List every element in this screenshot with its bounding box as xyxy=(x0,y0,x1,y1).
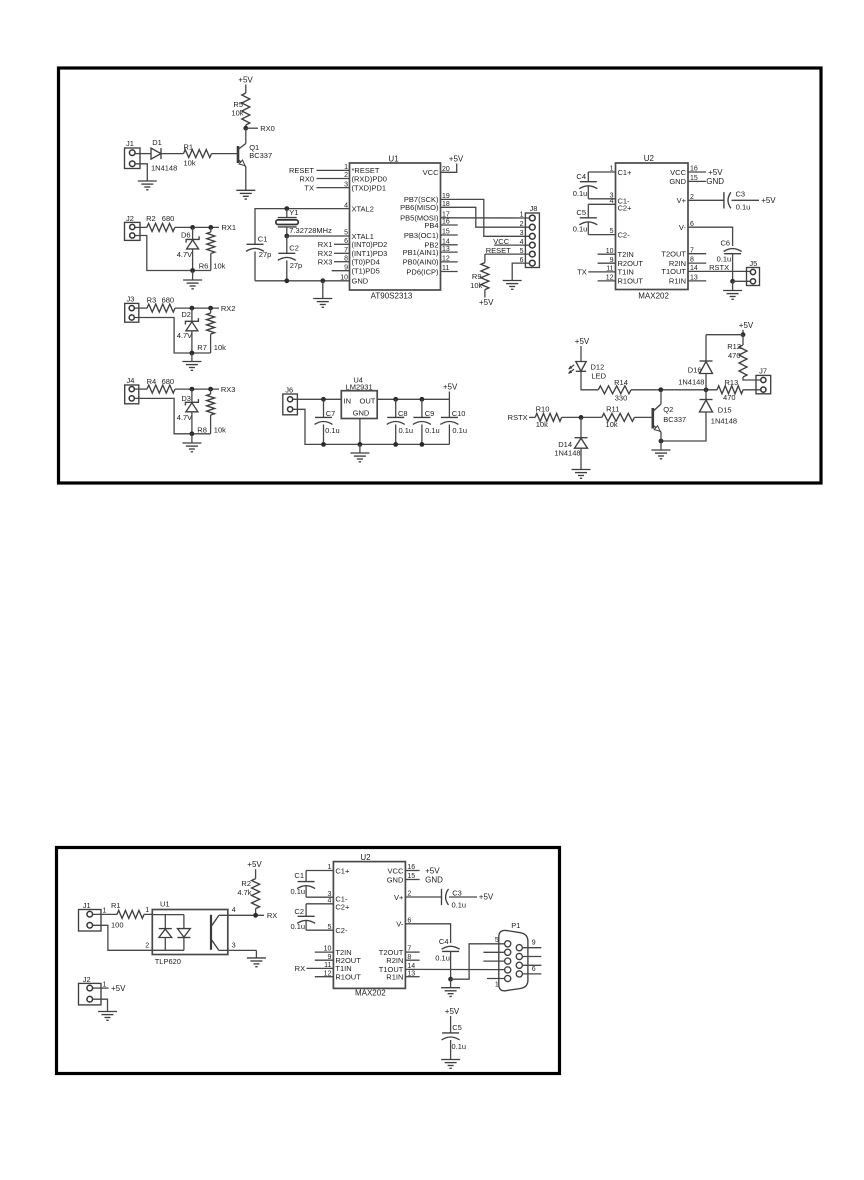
svg-text:10k: 10k xyxy=(184,159,196,168)
+5V supply at C3 (figure 2) xyxy=(479,893,494,902)
svg-text:GND: GND xyxy=(669,177,686,186)
node C4 ground junction xyxy=(448,977,453,982)
svg-text:3: 3 xyxy=(520,230,524,237)
svg-text:TX: TX xyxy=(304,183,314,192)
node R7 top xyxy=(208,306,213,311)
net label TX with wire to U1 pin3 xyxy=(304,183,349,192)
svg-text:RX0: RX0 xyxy=(260,124,275,133)
node D2 bottom xyxy=(190,351,195,356)
wire node to D3 xyxy=(191,389,193,402)
zener diode D2 4.7V xyxy=(177,310,199,340)
capacitor C1 0.1u (figure 2) xyxy=(291,871,334,898)
svg-text:0.1u: 0.1u xyxy=(291,922,306,931)
wire R14 to R13 xyxy=(631,389,717,391)
svg-text:(TXD)PD1: (TXD)PD1 xyxy=(352,183,387,192)
svg-text:1: 1 xyxy=(344,164,348,171)
wire stub P1 pin6 xyxy=(522,973,541,975)
svg-text:4: 4 xyxy=(232,907,236,914)
svg-text:PB3(OC1): PB3(OC1) xyxy=(404,231,439,240)
net label RX3 with wire to U1 pin8 xyxy=(318,257,350,266)
capacitor C3 0.1u xyxy=(724,190,759,212)
capacitor C2 0.1u (figure 2) xyxy=(291,904,334,931)
net label RX xyxy=(267,911,277,920)
node C8 bottom xyxy=(393,442,398,447)
svg-text:D14: D14 xyxy=(558,440,572,449)
svg-text:1N4148: 1N4148 xyxy=(554,449,580,458)
svg-text:V+: V+ xyxy=(394,893,404,902)
svg-text:U1: U1 xyxy=(388,154,399,163)
svg-text:XTAL2: XTAL2 xyxy=(352,204,374,213)
wire node to D16 xyxy=(706,335,743,361)
svg-text:RX1: RX1 xyxy=(318,240,333,249)
svg-text:C1+: C1+ xyxy=(618,168,633,177)
wire stub PB2 xyxy=(441,244,458,246)
wire +5V to R5 xyxy=(245,85,247,94)
wire R1 to Q1 base xyxy=(212,153,239,155)
connector J6 xyxy=(283,386,298,415)
node C2 bottom xyxy=(284,278,289,283)
svg-text:680: 680 xyxy=(162,377,175,386)
svg-text:IN: IN xyxy=(344,397,352,406)
svg-text:J2: J2 xyxy=(83,975,91,984)
svg-text:(INT0)PD2: (INT0)PD2 xyxy=(352,240,388,249)
svg-text:7: 7 xyxy=(344,247,348,254)
wire J8 pin6 to ground xyxy=(512,263,529,280)
node RX junction xyxy=(253,913,258,918)
node C6 bottom xyxy=(730,279,735,284)
node XTAL1 junction xyxy=(284,234,289,239)
svg-text:0.1u: 0.1u xyxy=(325,426,340,435)
svg-text:C7: C7 xyxy=(326,409,336,418)
svg-text:+5V: +5V xyxy=(479,893,494,902)
svg-text:V-: V- xyxy=(396,920,404,929)
svg-text:R1OUT: R1OUT xyxy=(618,277,644,286)
wire stub U2 pin8 (figure 2) xyxy=(405,959,419,961)
svg-text:RX3: RX3 xyxy=(318,257,333,266)
wire U1 pin4 to RX node xyxy=(219,907,264,915)
svg-text:R8: R8 xyxy=(197,425,207,434)
wire R5 to RX0 node xyxy=(245,125,247,128)
svg-text:R3: R3 xyxy=(147,295,157,304)
svg-text:C2-: C2- xyxy=(618,230,631,239)
svg-text:J6: J6 xyxy=(285,386,293,395)
capacitor C3 0.1u (figure 2) xyxy=(442,888,478,909)
wire J4 pin1 to R4 xyxy=(135,388,147,390)
node R8 top xyxy=(208,387,213,392)
svg-text:R1: R1 xyxy=(111,901,121,910)
+5V supply at C3 xyxy=(761,196,776,205)
svg-text:RX: RX xyxy=(295,964,305,973)
svg-text:9: 9 xyxy=(344,264,348,271)
connector P1 DB9 xyxy=(495,921,536,991)
svg-text:680: 680 xyxy=(162,214,175,223)
capacitor C8 0.1u xyxy=(387,399,413,444)
wire D6 to bottom rail xyxy=(192,249,194,271)
ground at J2 xyxy=(98,1012,117,1021)
svg-text:1: 1 xyxy=(495,981,499,988)
node D3 top xyxy=(190,387,195,392)
wire J3 pin1 to R3 xyxy=(135,307,147,309)
svg-text:1: 1 xyxy=(103,981,107,988)
wire J1 pin2 to U1 pin2 xyxy=(93,925,153,950)
wire stub U2 pin9 (figure 2) xyxy=(315,959,334,961)
svg-text:RX1: RX1 xyxy=(222,223,237,232)
svg-text:C8: C8 xyxy=(398,409,408,418)
net label RSTX with wire to J5 pin1 xyxy=(688,263,750,272)
connector J8 xyxy=(520,204,540,268)
wire stub P1 pin1 xyxy=(487,978,505,980)
net label RESET with wire to U1 pin1 xyxy=(289,166,350,175)
svg-text:RX3: RX3 xyxy=(221,385,236,394)
svg-text:+5V: +5V xyxy=(575,337,590,346)
svg-text:4.7V: 4.7V xyxy=(177,331,192,340)
wire J2 pin1 to R2 xyxy=(135,226,147,228)
connector J1 xyxy=(125,139,141,168)
svg-text:R4: R4 xyxy=(147,377,157,386)
svg-text:4.7V: 4.7V xyxy=(177,413,192,422)
svg-text:0.1u: 0.1u xyxy=(573,225,588,234)
wire U4 OUT to +5V rail xyxy=(377,398,449,400)
+5V supply at R2 xyxy=(247,860,262,869)
node RX0 junction xyxy=(243,126,248,131)
wire U2 GND stub xyxy=(688,180,706,182)
ground at Q2 xyxy=(652,450,671,459)
+5V supply at R9 xyxy=(479,298,494,307)
svg-text:VCC: VCC xyxy=(388,866,404,875)
svg-text:+5V: +5V xyxy=(479,298,494,307)
svg-text:R1: R1 xyxy=(184,142,194,151)
resistor R8 10k xyxy=(197,389,226,434)
wire node to Q1 collector xyxy=(245,128,247,143)
svg-text:27p: 27p xyxy=(290,261,303,270)
svg-text:10k: 10k xyxy=(536,420,548,429)
wire U1 pin3 to ground xyxy=(219,943,257,958)
wire +5V to R12 node xyxy=(742,330,744,335)
svg-text:C5: C5 xyxy=(576,208,586,217)
svg-text:0.1u: 0.1u xyxy=(452,426,467,435)
node D14 top xyxy=(579,415,584,420)
wire D2 to bottom rail xyxy=(191,331,193,353)
svg-text:2: 2 xyxy=(344,172,348,179)
node D2 top xyxy=(190,306,195,311)
wire stub PB0 xyxy=(441,261,458,263)
svg-text:0.1u: 0.1u xyxy=(452,901,467,910)
svg-text:U2: U2 xyxy=(360,853,371,862)
wire Q1 emitter to ground xyxy=(245,167,247,191)
wire node to D6 xyxy=(192,227,194,239)
svg-text:1: 1 xyxy=(145,907,149,914)
wire stub PB4 xyxy=(441,224,458,226)
wire R2 to RX1 label xyxy=(175,226,219,228)
wire PB7 to J8 pin3 xyxy=(441,199,530,236)
wire stub U2 pin9 xyxy=(598,262,616,264)
wire J2 pin2 to ground xyxy=(93,999,108,1011)
LED D12 xyxy=(568,362,606,381)
wire T1OUT to P1 xyxy=(405,968,504,970)
optocoupler U1 TLP620 xyxy=(152,900,228,967)
svg-text:C2-: C2- xyxy=(335,926,348,935)
wire U2 V+ to C3 xyxy=(688,199,724,201)
svg-text:RSTX: RSTX xyxy=(508,413,528,422)
resistor R2 4.7k xyxy=(237,869,259,915)
svg-text:J3: J3 xyxy=(127,295,135,304)
svg-text:0.1u: 0.1u xyxy=(736,202,751,211)
node Q2 collector xyxy=(658,387,663,392)
svg-text:T2OUT: T2OUT xyxy=(661,250,686,259)
net label GND xyxy=(706,177,724,186)
svg-text:4.7k: 4.7k xyxy=(237,888,251,897)
transistor Q2 BC337 xyxy=(653,390,686,450)
svg-text:(T1)PD5: (T1)PD5 xyxy=(352,267,380,276)
svg-text:+5V: +5V xyxy=(425,866,440,875)
wire C6 to J5 pin2 xyxy=(733,280,751,282)
svg-text:2: 2 xyxy=(145,943,149,950)
svg-text:10k: 10k xyxy=(606,420,618,429)
svg-text:TLP620: TLP620 xyxy=(155,957,181,966)
wire U2 GND stub (figure 2) xyxy=(405,879,419,881)
svg-text:PD6(ICP): PD6(ICP) xyxy=(406,267,439,276)
svg-text:2: 2 xyxy=(520,221,524,228)
wire stub U2 pin12 (figure 2) xyxy=(315,976,334,978)
svg-text:T2IN: T2IN xyxy=(618,250,634,259)
svg-text:C1+: C1+ xyxy=(335,866,350,875)
wire stub P1 row3 xyxy=(483,960,504,962)
svg-text:R13: R13 xyxy=(725,378,739,387)
wire J6 pin1 to U4 IN xyxy=(293,398,341,400)
connector J4 xyxy=(125,376,139,404)
svg-text:C5: C5 xyxy=(452,1023,462,1032)
zener diode D3 4.7V xyxy=(177,394,199,422)
net label RESET with wire to J8 pin5 xyxy=(485,246,530,255)
ground at U1 pin3 xyxy=(247,958,266,967)
zener diode D6 4.7V xyxy=(177,231,199,259)
connector J5 xyxy=(747,259,760,286)
capacitor C1 27p xyxy=(246,234,271,280)
svg-text:6: 6 xyxy=(532,966,536,973)
ground at U1 GND xyxy=(313,281,332,308)
svg-text:GND: GND xyxy=(425,875,443,884)
svg-text:R6: R6 xyxy=(199,261,209,270)
svg-text:+5V: +5V xyxy=(449,154,464,163)
wire J2 pin2 to bottom rail xyxy=(135,236,211,271)
wire R1 to U1 pin1 xyxy=(144,907,152,914)
IC U2 MAX202 xyxy=(606,154,698,300)
wire GND rail of crystal loop xyxy=(255,280,350,282)
svg-text:MAX202: MAX202 xyxy=(355,989,386,998)
net label RX1 with wire to U1 pin6 xyxy=(318,240,350,249)
svg-text:1N4148: 1N4148 xyxy=(151,163,177,172)
resistor R5 10k xyxy=(231,93,249,125)
svg-text:3: 3 xyxy=(232,943,236,950)
wire U2 VCC stub (figure 2) xyxy=(405,870,419,872)
diode D15 1N4148 xyxy=(700,390,738,426)
node GND junction xyxy=(320,278,325,283)
net label VCC with wire to J8 pin4 xyxy=(493,237,529,246)
svg-text:+5V: +5V xyxy=(238,76,253,85)
ground at D14 xyxy=(572,470,591,479)
svg-text:+5V: +5V xyxy=(708,168,723,177)
svg-text:PB0(AIN0): PB0(AIN0) xyxy=(403,258,439,267)
wire D16 to node xyxy=(705,374,707,390)
svg-text:10k: 10k xyxy=(470,281,482,290)
wire PB5 to J8 pin1 xyxy=(441,217,530,219)
svg-text:VCC: VCC xyxy=(670,168,686,177)
capacitor C4 0.1u xyxy=(573,172,616,199)
svg-text:330: 330 xyxy=(615,394,628,403)
wire J2 pin1 to +5V xyxy=(93,987,109,989)
svg-text:8: 8 xyxy=(344,255,348,262)
wire stub PB1 xyxy=(441,251,458,253)
resistor R10 10k xyxy=(535,404,561,429)
svg-text:PB6(MISO): PB6(MISO) xyxy=(400,203,439,212)
+5V supply at U2 VCC (figure 2) xyxy=(425,866,440,875)
ground at J3 section xyxy=(182,353,201,370)
ground at C4 xyxy=(441,979,460,996)
svg-text:1: 1 xyxy=(520,212,524,219)
wire stub P1 row right2 xyxy=(522,956,541,958)
svg-text:T1IN: T1IN xyxy=(618,268,634,277)
svg-text:RX: RX xyxy=(267,911,277,920)
svg-text:10k: 10k xyxy=(214,343,226,352)
wire C4 node to P1 pin5 xyxy=(451,944,505,979)
ground at J1 xyxy=(138,181,157,190)
svg-text:C2+: C2+ xyxy=(618,203,633,212)
svg-text:P1: P1 xyxy=(511,921,520,930)
svg-text:10: 10 xyxy=(340,275,348,282)
wire stub U1 pin9 xyxy=(332,270,350,272)
svg-text:C4: C4 xyxy=(439,937,449,946)
wire +5V to D12 xyxy=(580,346,582,362)
svg-text:V+: V+ xyxy=(677,196,687,205)
svg-text:AT90S2313: AT90S2313 xyxy=(371,291,413,300)
IC U1 AT90S2313 xyxy=(340,154,450,300)
capacitor C5 0.1u (figure 2) xyxy=(442,1016,467,1060)
node R12 top xyxy=(741,332,746,337)
net label RX2 xyxy=(221,304,236,313)
net label RSTX with wire to R10 xyxy=(508,413,536,422)
svg-text:D16: D16 xyxy=(688,365,702,374)
svg-text:J4: J4 xyxy=(127,376,135,385)
wire stub U2 pin10 (figure 2) xyxy=(315,951,334,953)
wire D15 to Q2 emitter xyxy=(661,412,706,441)
svg-text:C3: C3 xyxy=(736,190,746,199)
svg-text:680: 680 xyxy=(162,295,175,304)
wire D3 to bottom rail xyxy=(191,412,193,434)
svg-text:7.32728MHz: 7.32728MHz xyxy=(289,226,332,235)
svg-text:R2: R2 xyxy=(146,214,156,223)
resistor R2 680 xyxy=(146,214,175,231)
wire bottom rail U4 section xyxy=(293,409,450,444)
svg-text:OUT: OUT xyxy=(360,397,376,406)
svg-text:C4: C4 xyxy=(576,172,586,181)
diode D1 1N4148 xyxy=(151,138,177,173)
wire XTAL1 xyxy=(287,235,350,237)
+5V supply at U1 VCC xyxy=(449,154,464,163)
resistor R12 470 xyxy=(727,335,760,380)
svg-text:BC337: BC337 xyxy=(663,415,686,424)
net label RX2 with wire to U1 pin7 xyxy=(318,249,350,258)
connector J2 (figure 2) xyxy=(79,975,107,1005)
svg-text:470: 470 xyxy=(728,351,741,360)
net label TX with wire to U2 pin11 xyxy=(577,268,615,277)
svg-text:+5V: +5V xyxy=(111,984,126,993)
resistor R1 10k xyxy=(184,142,212,167)
wire U2 V- to C6 xyxy=(688,227,733,246)
node Y1 top xyxy=(284,206,289,211)
svg-text:5: 5 xyxy=(344,230,348,237)
wire R3 to RX2 label xyxy=(175,307,219,309)
svg-text:J1: J1 xyxy=(126,139,134,148)
ground at C5 xyxy=(441,1060,460,1069)
net label RX with wire to U2 pin11 xyxy=(295,964,334,973)
svg-text:D15: D15 xyxy=(718,406,732,415)
svg-text:0.1u: 0.1u xyxy=(435,953,450,962)
wire J1 pin2 to ground xyxy=(135,164,147,181)
svg-text:U1: U1 xyxy=(160,900,170,909)
wire J1 pin1 to D1 xyxy=(135,153,151,155)
svg-text:R1IN: R1IN xyxy=(386,973,403,982)
svg-text:C6: C6 xyxy=(721,238,731,247)
node C7 top xyxy=(321,397,326,402)
svg-text:R11: R11 xyxy=(606,404,619,413)
diode D14 1N4148 xyxy=(554,417,587,457)
resistor R3 680 xyxy=(147,295,175,312)
svg-text:J2: J2 xyxy=(126,214,134,223)
svg-text:R12: R12 xyxy=(727,342,741,351)
svg-text:27p: 27p xyxy=(259,250,272,259)
ground at J5 xyxy=(723,281,742,299)
svg-text:R14: R14 xyxy=(614,378,628,387)
svg-text:BC337: BC337 xyxy=(249,151,272,160)
net label RX0 xyxy=(260,124,275,133)
svg-text:PB4: PB4 xyxy=(424,221,438,230)
connector J3 xyxy=(125,295,139,323)
svg-text:V-: V- xyxy=(679,223,687,232)
svg-text:C2: C2 xyxy=(289,244,299,253)
net label GND (figure 2) xyxy=(425,875,443,884)
wire stub U2 pin13 xyxy=(688,280,706,282)
wire stub U2 pin10 xyxy=(598,253,616,255)
svg-text:10k: 10k xyxy=(231,109,243,118)
node D6 top xyxy=(190,225,195,230)
node R6 top xyxy=(208,225,213,230)
svg-text:GND: GND xyxy=(352,277,369,286)
svg-text:D3: D3 xyxy=(181,394,191,403)
svg-text:J7: J7 xyxy=(759,367,767,376)
net label RX0 with wire to U1 pin2 xyxy=(299,174,349,183)
wire stub U2 pin7 xyxy=(688,253,706,255)
svg-text:U2: U2 xyxy=(644,154,655,163)
svg-text:5: 5 xyxy=(495,937,499,944)
wire stub PD6 xyxy=(441,271,458,273)
svg-text:C3: C3 xyxy=(452,888,462,897)
wire XTAL2 loop xyxy=(255,209,350,245)
node C9 bottom xyxy=(420,442,425,447)
svg-text:1: 1 xyxy=(103,908,107,915)
wire stub U2 pin13 (figure 2) xyxy=(405,976,419,978)
svg-text:0.1u: 0.1u xyxy=(425,426,440,435)
IC U4 LM2931 xyxy=(341,376,377,419)
svg-text:J8: J8 xyxy=(530,204,538,213)
node C7 bottom xyxy=(321,442,326,447)
svg-text:T1OUT: T1OUT xyxy=(661,267,686,276)
+5V supply at R12 xyxy=(739,321,754,330)
wire R11 to Q2 base xyxy=(634,416,652,418)
node Q2 emitter xyxy=(659,439,664,444)
svg-text:GND: GND xyxy=(353,408,370,417)
svg-text:C9: C9 xyxy=(425,409,435,418)
svg-text:C1: C1 xyxy=(258,234,268,243)
